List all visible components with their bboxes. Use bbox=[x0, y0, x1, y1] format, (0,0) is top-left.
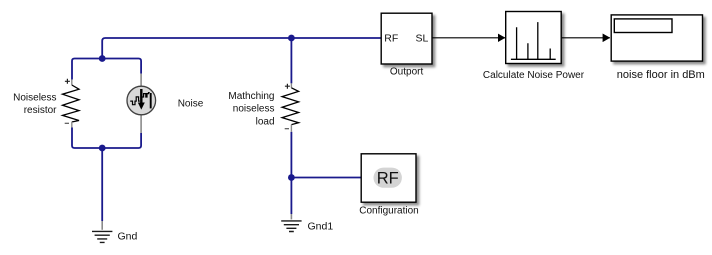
resistor R1 plus polarity mark bbox=[65, 79, 70, 84]
noise source icon right tall bar bbox=[150, 93, 152, 108]
svg-text:Outport: Outport bbox=[390, 67, 424, 78]
ground Gnd bars bbox=[92, 231, 112, 242]
block U1: Outport (RF to SL converter) bbox=[381, 13, 432, 77]
label: Mathching noiseless load bbox=[228, 91, 274, 127]
resistor R2 top terminal stub bbox=[290, 83, 292, 88]
svg-text:RF: RF bbox=[377, 170, 399, 188]
ground Gnd terminal stub bbox=[101, 221, 103, 230]
wire: parallel loop top segment bbox=[72, 59, 141, 80]
ground Gnd1 bars bbox=[281, 221, 301, 232]
svg-text:Configuration: Configuration bbox=[359, 206, 418, 217]
node: junction on top net for load branch bbox=[288, 35, 295, 42]
Calculate Noise Power block body bbox=[506, 12, 562, 64]
svg-text:Calculate Noise Power: Calculate Noise Power bbox=[483, 70, 585, 81]
wire: middle branch from top net down to load resistor bbox=[290, 38, 292, 83]
svg-text:Gnd: Gnd bbox=[118, 231, 138, 243]
resistor R2 plus polarity mark bbox=[285, 84, 290, 89]
svg-text:SL: SL bbox=[415, 33, 428, 45]
block U2: Calculate Noise Power bbox=[483, 12, 585, 81]
svg-text:RF: RF bbox=[384, 33, 398, 45]
ground Gnd bbox=[92, 221, 138, 243]
svg-text:load: load bbox=[256, 116, 275, 127]
display block body bbox=[611, 15, 702, 61]
Outport block body bbox=[381, 13, 432, 64]
block U3: Display (noise floor in dBm) bbox=[611, 15, 705, 81]
noise source icon down-arrow shaft bbox=[140, 89, 142, 103]
node: junction at top of parallel loop bbox=[99, 55, 106, 62]
noise current source (Noise) bbox=[127, 74, 156, 133]
svg-text:noise floor in dBm: noise floor in dBm bbox=[617, 69, 705, 81]
noise source icon left random-step waveform bbox=[130, 97, 140, 105]
resistor R1 zigzag body bbox=[63, 85, 80, 122]
resistor R2 zigzag body bbox=[282, 88, 299, 125]
svg-text:resistor: resistor bbox=[24, 105, 57, 116]
Configuration RF badge bbox=[374, 168, 402, 188]
label: Noise bbox=[178, 99, 204, 110]
svg-text:Noiseless: Noiseless bbox=[13, 92, 56, 103]
ground Gnd1 bbox=[281, 214, 333, 232]
resistor R1 (Noiseless resistor) bbox=[63, 79, 80, 128]
ground Gnd1 terminal stub bbox=[290, 214, 292, 219]
resistor R1 minus polarity mark bbox=[65, 122, 69, 124]
wire: parallel loop bottom segment bbox=[72, 127, 141, 148]
svg-text:Mathching: Mathching bbox=[228, 91, 274, 102]
noise source icon down-arrow head bbox=[138, 103, 145, 110]
spectrum icon bars bbox=[517, 22, 551, 59]
svg-text:Noise: Noise bbox=[178, 99, 204, 110]
wire: top net from loop junction up and right to Outport RF port bbox=[102, 38, 381, 59]
resistor R2 minus polarity mark bbox=[285, 128, 289, 130]
display readout window bbox=[614, 19, 672, 33]
wire: below load resistor down to Gnd1 bbox=[290, 132, 292, 214]
noise source icon right random-step waveform bbox=[142, 93, 149, 97]
resistor R2 (Mathching noiseless load) bbox=[282, 83, 299, 132]
resistor R1 top terminal stub bbox=[71, 79, 73, 85]
node: junction at load bottom tapping to Configuration bbox=[288, 174, 295, 181]
signal arrow: Calculate Noise Power to display bbox=[562, 37, 610, 39]
label: Noiseless resistor bbox=[13, 92, 57, 116]
signal arrow: Outport to Calculate Noise Power bbox=[432, 37, 505, 39]
noise source circle body bbox=[127, 86, 156, 115]
svg-text:Gnd1: Gnd1 bbox=[308, 220, 334, 232]
noise source terminal stubs bbox=[140, 74, 142, 133]
wire: from load bottom junction to Configuration block bbox=[291, 177, 361, 179]
block U4: Configuration bbox=[359, 154, 418, 217]
node: junction at bottom of parallel loop bbox=[99, 145, 106, 152]
spectrum icon baseline bbox=[511, 58, 556, 60]
resistor R2 bottom terminal stub bbox=[290, 125, 292, 132]
Configuration block body bbox=[361, 154, 416, 202]
svg-text:noiseless: noiseless bbox=[233, 104, 275, 115]
resistor R1 bottom terminal stub bbox=[71, 122, 73, 128]
wire: loop bottom junction down to Gnd bbox=[101, 148, 103, 221]
